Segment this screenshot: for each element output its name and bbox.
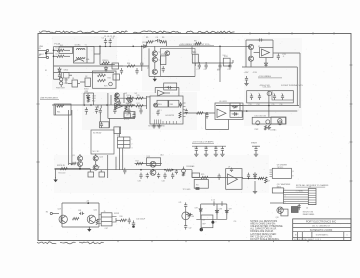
wire q-chain vertical — [149, 46, 155, 76]
svg-text:TP1 GND: TP1 GND — [183, 189, 191, 191]
label R30 value — [120, 216, 123, 218]
label comb values — [85, 91, 99, 116]
svg-text:VR1: VR1 — [161, 54, 165, 56]
capacitor C26 — [205, 112, 208, 118]
wire gnd drop — [55, 169, 57, 178]
wire q11 links — [69, 154, 80, 169]
diode CR4 — [232, 105, 238, 108]
wire lower horizontal y72.5 — [54, 72, 115, 74]
label U1 value — [258, 46, 260, 48]
box J5 output — [99, 213, 117, 226]
label F1 value — [55, 43, 61, 46]
label ds group — [255, 129, 260, 131]
capacitor C50 electrolytic blob — [200, 228, 203, 231]
wire left vertical bus — [53, 46, 55, 72]
svg-text:CR8: CR8 — [219, 209, 222, 211]
resistor R23 — [166, 169, 172, 171]
bottom border zone ticks — [118, 240, 308, 242]
capacitor C34 — [163, 173, 166, 179]
indicator DS4 circle — [182, 212, 190, 220]
capacitor C45 — [135, 68, 138, 74]
node U8 blob — [211, 221, 214, 224]
label C33 value — [138, 180, 141, 182]
svg-text:CR3: CR3 — [85, 91, 89, 93]
capacitor C9 — [218, 63, 221, 69]
svg-text:NO C NC: NO C NC — [93, 151, 101, 153]
ground GND6 — [253, 181, 257, 194]
svg-text:RT1 10: RT1 10 — [124, 119, 129, 121]
net label line filter underline — [40, 96, 59, 99]
label Q11 value — [72, 155, 75, 157]
svg-text:U6 LM311: U6 LM311 — [219, 101, 227, 103]
svg-text:to J4: to J4 — [211, 199, 215, 202]
label R27 value — [267, 180, 270, 182]
wire x109.6 vertical — [109, 118, 111, 127]
box relay K6 — [194, 180, 208, 189]
scan shading wash top-left — [52, 36, 117, 90]
diode CR6 vertical — [253, 172, 256, 178]
label F1 top — [104, 36, 115, 38]
svg-text:R33 10: R33 10 — [103, 60, 109, 62]
capacitor C36 — [218, 174, 221, 180]
op-amp U4a triangle — [158, 90, 165, 96]
svg-text:Q2: Q2 — [159, 60, 161, 62]
label CR7 value — [195, 207, 198, 209]
left stack parts — [115, 94, 121, 110]
svg-text:K2: K2 — [231, 106, 233, 108]
capacitor C16 electrolytic — [281, 92, 284, 100]
resistor R9 — [194, 40, 201, 44]
transformer T1 primary winding — [77, 49, 85, 50]
resistor R33 — [102, 60, 110, 64]
label R24 — [186, 165, 195, 168]
label bias — [126, 103, 133, 105]
resistor R5 feedback — [147, 41, 154, 43]
label TB1 value — [117, 135, 120, 137]
relay K1 coil arc — [74, 59, 84, 61]
svg-text:PIN 1: PIN 1 — [158, 110, 162, 112]
net label install underline — [296, 184, 329, 187]
node junction x133 — [132, 46, 134, 48]
svg-text:R31 150 3W: R31 150 3W — [94, 73, 104, 75]
svg-text:C38: C38 — [78, 210, 81, 212]
svg-text:C22: C22 — [126, 108, 129, 110]
svg-text:R1: R1 — [56, 48, 58, 50]
connector pins down — [211, 199, 222, 206]
diode CR12 input — [186, 213, 192, 216]
node mid junctions — [140, 169, 173, 171]
diode CR2 — [264, 61, 267, 67]
wire J3 fan-out — [284, 190, 309, 204]
wire fan left drops — [270, 190, 284, 204]
wire right drops — [90, 155, 107, 178]
svg-text:C18: C18 — [95, 106, 98, 108]
label DS5 DS6 — [65, 80, 69, 86]
connector J3 strip — [308, 187, 316, 205]
node junction x220 y46 — [219, 46, 221, 48]
svg-text:-15V: -15V — [253, 72, 258, 74]
label R22 value — [136, 161, 139, 163]
transistor Q21 in U4 — [154, 103, 158, 107]
transistor Q19 big — [59, 215, 67, 223]
label U8 pins — [216, 222, 217, 224]
lamp DS5 — [60, 73, 63, 81]
svg-text:+15V TO ALL OP AMPS: +15V TO ALL OP AMPS — [192, 141, 214, 144]
capacitor C33 — [139, 173, 142, 179]
wire M1 drop — [268, 124, 271, 127]
box K3 — [230, 111, 242, 118]
diode CR8 — [215, 208, 218, 214]
capacitor C38 — [79, 212, 84, 215]
wire bus pair lower y111 — [230, 110, 297, 112]
indicator circle DS3 — [278, 121, 282, 125]
label C51 value — [234, 221, 237, 223]
svg-text:+15V: +15V — [244, 72, 250, 74]
wire k4 stub — [95, 154, 97, 165]
capacitor C1 — [102, 38, 108, 45]
label ladder row — [125, 93, 138, 95]
svg-text:SCALE NONE SHEET 1 OF 1: SCALE NONE SHEET 1 OF 1 — [294, 238, 322, 241]
filter bank divider — [268, 91, 270, 103]
label K2 value — [231, 106, 233, 108]
svg-text:LINE FILTER ASSY: LINE FILTER ASSY — [40, 96, 59, 99]
svg-text:K1: K1 — [76, 59, 78, 61]
svg-text:J3: J3 — [309, 187, 311, 189]
svg-text:Q3: Q3 — [147, 67, 149, 69]
svg-text:R5: R5 — [146, 37, 148, 39]
svg-text:E: E — [293, 175, 294, 177]
motor circle M1 — [278, 119, 282, 123]
resistor R13 vertical — [125, 106, 127, 111]
label under U9 — [277, 183, 291, 188]
svg-text:Q20: Q20 — [94, 210, 97, 212]
capacitor C12 with ground — [244, 76, 248, 86]
box bias b — [99, 172, 105, 177]
label cr9 area — [229, 209, 232, 211]
wire x141.8 vertical — [141, 46, 143, 72]
label U7 value — [228, 167, 230, 169]
box U5 small — [164, 83, 177, 90]
resistor R6 feedback — [160, 41, 167, 43]
diode CR10 — [58, 67, 68, 73]
wire mid horizontal y66 — [54, 65, 150, 67]
svg-text:C10: C10 — [227, 69, 230, 71]
regulator loop wire — [246, 40, 273, 67]
svg-text:R24 BIAS: R24 BIAS — [186, 165, 195, 168]
svg-text:R22: R22 — [136, 161, 139, 163]
label spk — [114, 213, 120, 215]
transistor Q9 — [115, 98, 119, 102]
svg-text:REF: REF — [203, 223, 206, 225]
label cap bank note b — [281, 84, 303, 87]
label input — [46, 212, 59, 215]
resistor R28 — [73, 218, 80, 220]
label K4 pins — [93, 151, 101, 153]
svg-text:R25: R25 — [201, 174, 204, 176]
label s1 aux — [45, 70, 47, 72]
net label VREF underline — [179, 44, 214, 46]
capacitor C4 feedback — [155, 37, 161, 42]
indicator box — [252, 117, 285, 124]
label R5 fb — [146, 37, 164, 39]
title block dwg number text — [316, 234, 329, 237]
op-amp U4a feedback loop — [155, 88, 179, 97]
label filter bank — [263, 87, 272, 89]
ground GND4 — [267, 126, 271, 130]
capacitor C20 — [113, 108, 116, 114]
resistor R2 — [54, 55, 71, 57]
node y105 junction b — [90, 104, 92, 106]
label C9 value — [217, 69, 219, 71]
right border zone ticks — [350, 65, 353, 181]
svg-text:C29: C29 — [214, 147, 217, 149]
box aux relay — [64, 73, 70, 79]
svg-text:C2: C2 — [112, 38, 114, 40]
svg-text:B: B — [293, 171, 294, 173]
parts top of U7 — [230, 168, 233, 172]
op-amp U7 box — [226, 169, 242, 190]
capacitor C24 — [132, 112, 135, 118]
label ladder caps — [124, 119, 129, 121]
transistor Q1 — [152, 51, 157, 56]
svg-text:TB1: TB1 — [117, 135, 120, 137]
scan speckle noise — [39, 35, 351, 240]
label lower right pair — [303, 211, 315, 215]
resistor R11 — [57, 105, 64, 107]
capacitor C37 — [247, 173, 250, 179]
transistor Q3 — [152, 69, 157, 74]
capacitor C25 top — [167, 86, 172, 89]
ground GND5 filled — [53, 177, 57, 182]
svg-text:DS4: DS4 — [191, 216, 195, 218]
box bias a — [88, 172, 94, 177]
transistor Q16 — [150, 170, 156, 176]
wire U4 in — [147, 96, 150, 98]
svg-text:115VAC: 115VAC — [75, 43, 82, 46]
label Q19 value — [58, 209, 61, 211]
svg-text:R17: R17 — [137, 103, 140, 105]
scan shading wash top-right — [244, 38, 302, 126]
label out labels — [105, 228, 109, 230]
node y168 junction — [79, 168, 81, 170]
svg-text:C13: C13 — [249, 104, 252, 106]
capacitor C46 — [140, 62, 143, 66]
connector J1 input plug — [39, 48, 49, 51]
capacitor C43 — [58, 73, 61, 79]
rectifier box BR1 — [272, 91, 293, 100]
title block rev cell text — [346, 235, 348, 237]
label cap bank note a — [260, 85, 271, 87]
label Q1 chain — [147, 51, 161, 69]
label VR23 values — [193, 52, 227, 57]
transistor Q7 in bank — [267, 91, 271, 95]
node top bus junction a — [105, 46, 107, 48]
svg-text:C28: C28 — [204, 147, 207, 149]
capacitor C41 — [184, 202, 187, 208]
resistor R15 — [136, 97, 143, 99]
IC U4 bottom note — [148, 125, 165, 128]
resistor R12 vertical — [87, 97, 89, 102]
svg-text:C41: C41 — [179, 202, 182, 204]
svg-text:C4: C4 — [156, 37, 158, 39]
svg-text:RV1: RV1 — [104, 85, 107, 87]
svg-text:CR9: CR9 — [229, 209, 232, 211]
svg-text:PWR STBY: PWR STBY — [56, 88, 66, 90]
wire U6 input — [183, 112, 215, 114]
svg-text:R15: R15 — [137, 95, 140, 97]
capacitor C10 — [228, 63, 231, 69]
filter box FL1 — [59, 45, 73, 54]
amp loop box top — [62, 202, 99, 204]
label Q15 value — [147, 156, 150, 158]
capacitor C49 — [157, 173, 160, 179]
drawing note text below border — [37, 242, 104, 244]
wire s1 s2 link — [68, 82, 85, 84]
scan shading wash top-centre — [142, 36, 200, 91]
resistor R16 — [126, 105, 134, 107]
varistor RV1 — [104, 82, 112, 87]
label right module text — [277, 164, 288, 168]
label M1 — [270, 129, 277, 132]
resistor R34 — [127, 63, 135, 67]
svg-text:C13-C16: C13-C16 — [263, 87, 272, 89]
svg-text:.01: .01 — [85, 114, 87, 116]
label supply — [86, 200, 89, 204]
label K3 value — [232, 114, 234, 116]
label DS4 value — [191, 216, 195, 218]
svg-text:REAR PANEL: REAR PANEL — [303, 213, 315, 216]
wire U7 out — [242, 177, 243, 179]
wire feedback loop — [147, 41, 167, 47]
svg-text:C23: C23 — [138, 108, 141, 110]
svg-text:Q19: Q19 — [58, 209, 61, 211]
box RT1 — [124, 111, 130, 118]
box L1 filter — [54, 104, 71, 115]
label R11 — [57, 112, 60, 114]
capacitor C42 — [184, 223, 187, 229]
transistor Q14 — [93, 165, 98, 170]
resistor R18 — [197, 112, 204, 114]
wire left y118 segment — [108, 117, 135, 119]
label fan wires — [285, 189, 286, 205]
wire top rail bottom centre — [201, 203, 227, 205]
diode CR9 — [225, 208, 228, 214]
box dark component — [291, 207, 298, 213]
label C10 value — [227, 69, 230, 71]
indicator circle DS1 — [256, 121, 260, 125]
svg-text:10uF: 10uF — [217, 69, 221, 71]
connector TB1 table — [118, 137, 131, 148]
svg-text:RT1: RT1 — [125, 111, 128, 113]
svg-text:C51: C51 — [234, 221, 237, 223]
label R21 value — [59, 172, 66, 174]
wire x100 vertical — [99, 46, 101, 65]
wire U6 out pair — [216, 105, 243, 107]
box small x113 lower — [113, 74, 120, 80]
svg-text:C27: C27 — [195, 147, 198, 149]
svg-text:C33: C33 — [138, 180, 141, 182]
filter bank box — [247, 91, 294, 103]
svg-text:C15: C15 — [272, 104, 275, 106]
svg-text:DS1 DS2 DS3: DS1 DS2 DS3 — [255, 116, 267, 118]
label DS cluster — [56, 88, 66, 90]
label K1 contact — [86, 58, 90, 61]
border frame — [38, 34, 351, 241]
svg-text:NOTE: ALL GROUNDS TO CHASSIS: NOTE: ALL GROUNDS TO CHASSIS — [296, 184, 329, 187]
lamp DS6 — [60, 81, 63, 87]
label +15V rail — [244, 72, 258, 74]
resistor R31 in module — [98, 74, 106, 76]
title block company name text — [306, 220, 337, 223]
wire table drops — [116, 148, 123, 170]
capacitor C40 polarized — [132, 220, 135, 227]
diode CR11 — [104, 66, 107, 72]
trimmer R24 — [182, 167, 186, 177]
ground GND1 — [153, 76, 157, 81]
IC U4 inner text2 — [158, 110, 162, 112]
svg-text:Q15: Q15 — [147, 156, 150, 158]
diode CR13 in U4 — [179, 102, 182, 108]
svg-text:R34: R34 — [127, 63, 130, 65]
wire verticals bottom centre — [201, 204, 227, 219]
resistor R25 — [201, 176, 208, 178]
resistor R19 vertical — [265, 126, 267, 131]
connector J2 input plug — [39, 55, 49, 58]
svg-text:CR7: CR7 — [195, 207, 198, 209]
capacitor C44 — [120, 68, 123, 74]
capacitor C32 — [123, 168, 126, 174]
wire vertical x220 top — [219, 46, 221, 82]
box U3 lower — [124, 112, 135, 118]
wire verticals right of comb — [108, 93, 131, 118]
scan shading wash mid-left — [82, 92, 197, 130]
wire T1 to bus — [94, 46, 100, 54]
capacitor C54 right — [185, 109, 188, 115]
wire input to bus — [48, 50, 55, 58]
capacitor C13 electrolytic — [250, 92, 253, 100]
svg-text:C8: C8 — [204, 69, 206, 71]
capacitor C22 — [127, 108, 130, 114]
svg-text:Q18: Q18 — [276, 217, 279, 219]
box U8 — [201, 215, 213, 228]
svg-text:.1: .1 — [282, 56, 284, 58]
wire comb verticals — [84, 93, 111, 122]
svg-text:SPARE: SPARE — [251, 141, 258, 144]
resistor R32 in module — [98, 77, 111, 81]
label C34 value — [162, 180, 165, 182]
wire cluster links — [192, 46, 233, 66]
svg-text:J5: J5 — [104, 211, 106, 213]
capacitor C8 — [205, 63, 208, 69]
label C22 value — [126, 108, 129, 110]
title block address text — [312, 226, 331, 228]
svg-text:C1 .01 C2 .01: C1 .01 C2 .01 — [104, 36, 115, 38]
wire left y105 segment — [52, 104, 135, 106]
svg-text:R9: R9 — [194, 40, 196, 42]
op-amp U1 box — [260, 48, 274, 58]
transistor Q2 — [152, 57, 157, 62]
label R17 value — [137, 103, 140, 105]
transistor Q15 — [150, 161, 156, 167]
box K2 — [230, 103, 240, 111]
resistor R27 vertical — [265, 177, 267, 183]
svg-text:115VAC: 115VAC — [270, 129, 277, 132]
transistor Q13 — [93, 156, 98, 161]
indicator circle DS2 — [266, 120, 270, 124]
left border zone tick — [36, 104, 39, 162]
svg-text:K3: K3 — [232, 114, 234, 116]
svg-text:Q1: Q1 — [159, 51, 161, 53]
